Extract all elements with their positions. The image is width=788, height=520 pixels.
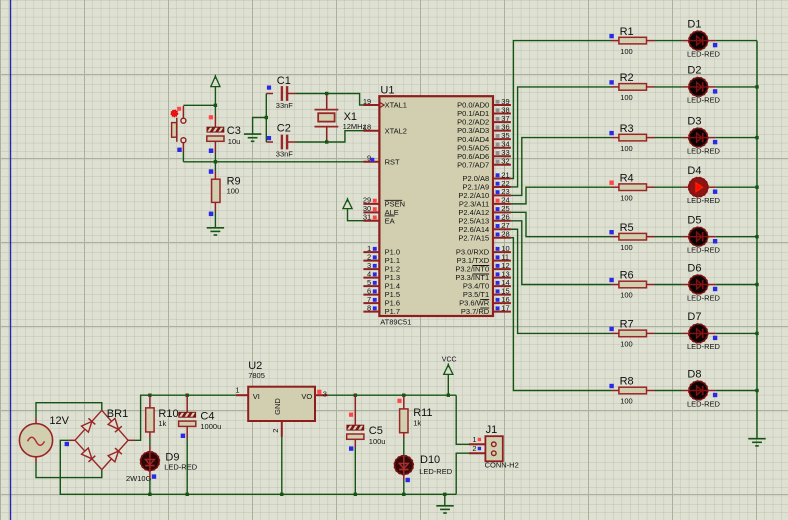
LED D9: [149, 446, 151, 452]
wire bridge minus to ground rail: [69, 439, 75, 441]
resistor R6: [611, 284, 619, 286]
capacitor C4: [186, 394, 189, 397]
svg-text:D7: D7: [687, 311, 701, 323]
svg-text:VCC: VCC: [442, 357, 457, 364]
wire D3 to bus: [716, 137, 757, 139]
wire button bottom: [182, 152, 184, 162]
svg-text:XTAL2: XTAL2: [385, 126, 407, 135]
pins P2.0-P2.7 A bus: [493, 178, 511, 180]
svg-text:R4: R4: [620, 172, 634, 184]
svg-text:VI: VI: [253, 392, 260, 401]
svg-text:LED-RED: LED-RED: [687, 49, 721, 58]
svg-text:100u: 100u: [369, 437, 386, 446]
pins P0.0-P0.7 AD bus: [493, 104, 511, 106]
svg-text:D2: D2: [687, 65, 701, 77]
svg-text:P0.7/AD7: P0.7/AD7: [457, 160, 489, 169]
power symbol (EA): [343, 199, 352, 208]
node reset-top junction: [214, 104, 217, 107]
svg-text:100: 100: [620, 193, 633, 202]
regulator U2 7805: [248, 387, 315, 421]
svg-text:100: 100: [620, 243, 633, 252]
resistor R1: [611, 40, 619, 42]
wire C1-C2 left vertical: [265, 94, 267, 143]
svg-text:P1.7: P1.7: [385, 307, 400, 316]
svg-text:100: 100: [620, 47, 633, 56]
wire R2 to D2: [655, 86, 683, 88]
pushbutton reset switch: [182, 106, 184, 118]
svg-text:2W10G: 2W10G: [126, 474, 152, 483]
resistor R8: [611, 390, 619, 392]
svg-text:2: 2: [472, 444, 476, 453]
resistor R7: [611, 332, 619, 334]
node bus D2: [755, 85, 758, 88]
svg-text:100: 100: [620, 397, 633, 406]
capacitor C1: [266, 93, 273, 95]
resistor R11: [402, 394, 405, 397]
bridge rectifier BR1: [75, 410, 102, 440]
wire D7 to bus: [716, 332, 757, 334]
svg-text:7805: 7805: [248, 371, 265, 380]
wire source top to bridge: [36, 403, 102, 418]
svg-text:LED-RED: LED-RED: [687, 246, 721, 255]
svg-text:LED-RED: LED-RED: [687, 146, 721, 155]
svg-text:1000u: 1000u: [200, 422, 221, 431]
svg-text:R3: R3: [620, 123, 634, 135]
svg-text:1: 1: [235, 386, 239, 395]
crystal X1: [326, 94, 328, 110]
capacitor C2: [266, 141, 273, 143]
pin 3 VO: [315, 394, 328, 396]
pin 29 PSEN: [363, 203, 379, 205]
svg-text:P3.7/RD: P3.7/RD: [461, 307, 490, 316]
svg-text:LED-RED: LED-RED: [164, 463, 198, 472]
wire D2 to bus: [716, 86, 757, 88]
svg-text:LED-RED: LED-RED: [687, 96, 721, 105]
wire D1 to bus: [716, 40, 757, 42]
capacitor C3: [214, 105, 216, 116]
svg-text:D6: D6: [687, 262, 701, 274]
wire R7 to D7: [655, 332, 683, 334]
wire rail to J1 pin2: [456, 453, 469, 494]
node bus D8: [755, 389, 758, 392]
node C3/R9 junction: [214, 160, 217, 163]
svg-text:2: 2: [271, 429, 280, 433]
svg-text:1k: 1k: [158, 419, 166, 428]
node bus D3: [755, 136, 758, 139]
ground (caps): [244, 133, 261, 135]
svg-text:LED-RED: LED-RED: [419, 467, 453, 476]
svg-text:U1: U1: [380, 85, 394, 97]
wire D8 to bus: [716, 390, 757, 392]
svg-text:12V: 12V: [49, 415, 69, 427]
node X1 top: [325, 92, 328, 95]
svg-text:LED-RED: LED-RED: [687, 196, 721, 205]
wire bridge plus to VI rail: [128, 439, 135, 441]
wire R6 to D6: [655, 284, 683, 286]
svg-text:CONN-H2: CONN-H2: [485, 461, 519, 470]
svg-text:R11: R11: [413, 407, 432, 419]
pin 9 RST: [363, 161, 379, 163]
svg-text:100: 100: [227, 187, 240, 196]
svg-text:D3: D3: [687, 115, 701, 127]
svg-text:P2.7/A15: P2.7/A15: [458, 233, 489, 242]
wire XTAL2: [327, 131, 364, 142]
pin 30 ALE: [363, 211, 379, 213]
resistor R9: [214, 162, 216, 171]
pins P3.0-P3.7: [493, 251, 511, 253]
sheet border line: [10, 0, 12, 520]
connector J1 CONN-H2: [485, 436, 502, 461]
pin 2 GND: [281, 421, 283, 437]
LED D7: [683, 332, 689, 334]
wire R4 to D4: [655, 186, 683, 188]
wire VO rail: [328, 394, 457, 396]
svg-text:3: 3: [323, 389, 327, 398]
svg-text:1k: 1k: [413, 419, 421, 428]
svg-text:R1: R1: [620, 26, 634, 38]
svg-text:LED-RED: LED-RED: [687, 399, 721, 408]
svg-text:LED-RED: LED-RED: [687, 293, 721, 302]
svg-text:LED-RED: LED-RED: [687, 342, 721, 351]
svg-text:100: 100: [620, 144, 633, 153]
LED D6: [683, 284, 689, 286]
svg-text:19: 19: [363, 97, 371, 106]
svg-text:R6: R6: [620, 270, 634, 282]
svg-text:EA: EA: [385, 216, 395, 225]
wire reset top: [183, 104, 215, 106]
svg-text:C4: C4: [200, 411, 214, 423]
svg-text:C2: C2: [277, 123, 291, 135]
LED D8: [683, 390, 689, 392]
pins P1.0-P1.7: [363, 251, 379, 253]
svg-text:32: 32: [501, 157, 509, 166]
red state dot on button: [171, 110, 178, 117]
svg-text:BR1: BR1: [107, 408, 128, 420]
ground (supply rail): [436, 505, 453, 507]
svg-text:10u: 10u: [228, 137, 241, 146]
LED D10: [403, 455, 405, 457]
wire R8 to D8: [655, 390, 683, 392]
svg-text:R5: R5: [620, 222, 634, 234]
wire D5 to bus: [716, 236, 757, 238]
svg-text:100: 100: [620, 340, 633, 349]
svg-text:J1: J1: [486, 424, 498, 436]
ground (LED bus): [748, 438, 765, 440]
wire P2 fanout to LEDs: [511, 41, 611, 179]
node bus D7: [755, 332, 758, 335]
node bus D6: [755, 283, 758, 286]
LED D5: [683, 236, 689, 238]
LED D4: [683, 186, 689, 188]
svg-text:17: 17: [501, 303, 509, 312]
capacitor C5: [354, 394, 357, 397]
pin 1 VI: [236, 394, 248, 396]
wire RST net: [183, 161, 363, 163]
ground tap on rail: [443, 493, 446, 496]
LED D1: [683, 40, 689, 42]
svg-text:33nF: 33nF: [276, 150, 294, 159]
svg-text:C3: C3: [227, 125, 241, 137]
pin 31 EA: [363, 220, 379, 222]
svg-text:D8: D8: [687, 368, 701, 380]
power symbol VCC (supply): [444, 365, 453, 375]
svg-text:R2: R2: [620, 72, 634, 84]
svg-text:D4: D4: [687, 165, 701, 177]
resistor R5: [611, 236, 619, 238]
svg-text:VO: VO: [301, 392, 312, 401]
ground (reset): [207, 227, 224, 229]
power symbol VCC (reset): [211, 76, 220, 86]
svg-text:1: 1: [472, 435, 476, 444]
wire VO to J1 pin1: [456, 395, 469, 444]
wire R5 to D5: [655, 236, 683, 238]
svg-text:31: 31: [363, 213, 371, 222]
svg-text:AT89C51: AT89C51: [380, 317, 411, 326]
pin 18 XTAL2: [363, 130, 379, 132]
svg-text:RST: RST: [385, 157, 400, 166]
svg-text:D1: D1: [687, 18, 701, 30]
node cap-gnd junction: [265, 116, 268, 119]
svg-text:R8: R8: [620, 376, 634, 388]
svg-text:XTAL1: XTAL1: [385, 101, 407, 110]
resistor R10: [148, 394, 151, 397]
wire LED cathode bus: [756, 41, 758, 439]
node bus D5: [755, 235, 758, 238]
svg-text:18: 18: [363, 123, 371, 132]
wire R3 to D3: [655, 137, 683, 139]
svg-text:R7: R7: [620, 319, 634, 331]
resistor R2: [611, 86, 619, 88]
wire to ground: [253, 118, 267, 135]
AC source 12V: [19, 424, 52, 457]
LED D3: [683, 137, 689, 139]
wire XTAL1: [327, 94, 364, 106]
op IC U1 AT89C51 body: [379, 96, 493, 316]
svg-text:GND: GND: [273, 398, 282, 415]
wire D4 to bus: [716, 186, 757, 188]
resistor R4: [611, 186, 619, 188]
svg-text:D5: D5: [687, 215, 701, 227]
svg-text:100: 100: [620, 93, 633, 102]
wire EA: [348, 209, 364, 221]
svg-text:D10: D10: [420, 454, 440, 466]
LED D2: [683, 86, 689, 88]
node bus D4: [755, 186, 758, 189]
pin 19 XTAL1: [363, 104, 379, 106]
node X1 bottom: [325, 140, 328, 143]
svg-text:C1: C1: [277, 75, 291, 87]
resistor R3: [611, 137, 619, 139]
svg-text:28: 28: [501, 230, 509, 239]
svg-text:8: 8: [367, 303, 371, 312]
wire source bottom to bridge: [36, 463, 102, 478]
wire R1 to D1: [655, 40, 683, 42]
svg-text:C5: C5: [369, 425, 383, 437]
svg-text:33nF: 33nF: [276, 101, 294, 110]
wire D6 to bus: [716, 284, 757, 286]
svg-text:100: 100: [620, 291, 633, 300]
